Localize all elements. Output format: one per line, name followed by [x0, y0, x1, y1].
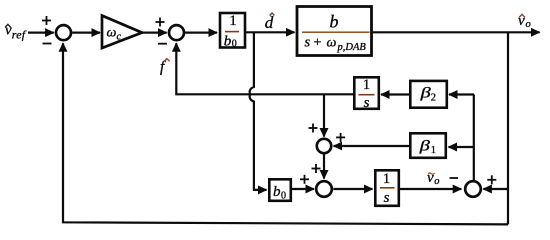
wire vhat_o branch down: [507, 32, 509, 224]
bottom feedback wire: [63, 43, 508, 224]
node vtilde_o label: [427, 170, 440, 187]
svg-text:2: 2: [431, 93, 436, 104]
node vhat_o label: [518, 13, 531, 30]
wire b0 to S4: [292, 188, 314, 190]
svg-text:ω: ω: [107, 26, 117, 41]
plus sign S1 top input: [42, 16, 51, 25]
minus sign S5 left input: [450, 177, 459, 179]
wire error node to beta2: [449, 93, 474, 95]
svg-text:s: s: [305, 35, 311, 51]
block 1/b0: [220, 13, 245, 49]
plus sign S3 right input: [336, 133, 345, 142]
svg-text:o: o: [526, 19, 531, 30]
wire branch down from d-node with hop over f line: [250, 32, 267, 190]
svg-text:+: +: [314, 36, 322, 51]
block integrator 1/s (top): [354, 77, 379, 111]
wire S5 output up to beta blocks: [473, 95, 475, 181]
wire beta2 to integrator: [381, 93, 410, 95]
minus sign S1 bottom input: [43, 43, 52, 45]
svg-text:d: d: [265, 13, 274, 32]
wire f-line from integrator 1/s to S2 (feedback f): [176, 43, 354, 94]
svg-text:b: b: [273, 184, 281, 200]
wire branch down from f-line into summer S3: [323, 94, 325, 136]
plus sign S5 right input: [487, 175, 496, 184]
node vhat_ref label: [5, 23, 27, 42]
wire S4 to integrator 1/s bottom: [333, 188, 372, 190]
summing junction S1: [56, 25, 71, 40]
plus sign S3 top input: [309, 124, 318, 133]
summing junction S3: [317, 139, 331, 153]
svg-text:ref: ref: [12, 28, 27, 42]
wire beta1 to S3: [334, 145, 410, 147]
svg-text:s: s: [364, 95, 370, 111]
block integrator 1/s (bottom): [375, 170, 399, 206]
wire 1/b0 to plant block: [246, 31, 295, 33]
block beta2: [410, 81, 447, 108]
summing junction S2: [169, 25, 184, 40]
svg-text:s: s: [384, 190, 390, 206]
minus sign S2 bottom input: [158, 43, 167, 45]
wire S3 output down to summer S4: [323, 154, 325, 178]
svg-text:o: o: [434, 176, 439, 187]
wire error node to beta1: [449, 146, 475, 148]
plus sign S2 top input: [156, 18, 165, 27]
plus sign S4 top input: [312, 164, 321, 173]
block beta1: [410, 133, 446, 158]
svg-text:ω: ω: [327, 36, 337, 51]
summing junction S5: [465, 181, 481, 197]
wire S2 to block 1/b0: [185, 31, 217, 33]
wire vtilde_o to summer S5: [399, 188, 461, 190]
wire S1 to gain triangle: [72, 31, 100, 33]
svg-text:b: b: [224, 33, 232, 49]
svg-text:b: b: [330, 12, 339, 32]
wire triangle to summer S2: [142, 31, 167, 33]
svg-text:0: 0: [281, 191, 286, 202]
node dhat label: [265, 13, 275, 32]
node fhat label: [160, 59, 170, 76]
svg-text:0: 0: [232, 38, 237, 49]
wire vhat_o into S5 right: [483, 188, 508, 190]
plant block b/(s+wp,DAB): [297, 7, 372, 56]
svg-text:1: 1: [431, 145, 436, 156]
wire vref to summer S1: [28, 31, 54, 33]
block b0: [269, 179, 291, 201]
svg-text:β: β: [419, 137, 430, 154]
summing junction S4: [316, 181, 332, 197]
output wire to vhat_o: [372, 31, 540, 33]
svg-text:p,DAB: p,DAB: [337, 42, 367, 53]
svg-text:c: c: [117, 32, 122, 43]
plus sign S4 left input: [300, 175, 309, 184]
svg-text:1: 1: [363, 77, 371, 93]
op-amp style gain block omega_c: [102, 16, 142, 48]
svg-text:1: 1: [229, 13, 237, 29]
svg-text:1: 1: [383, 171, 391, 187]
svg-text:β: β: [419, 84, 430, 101]
